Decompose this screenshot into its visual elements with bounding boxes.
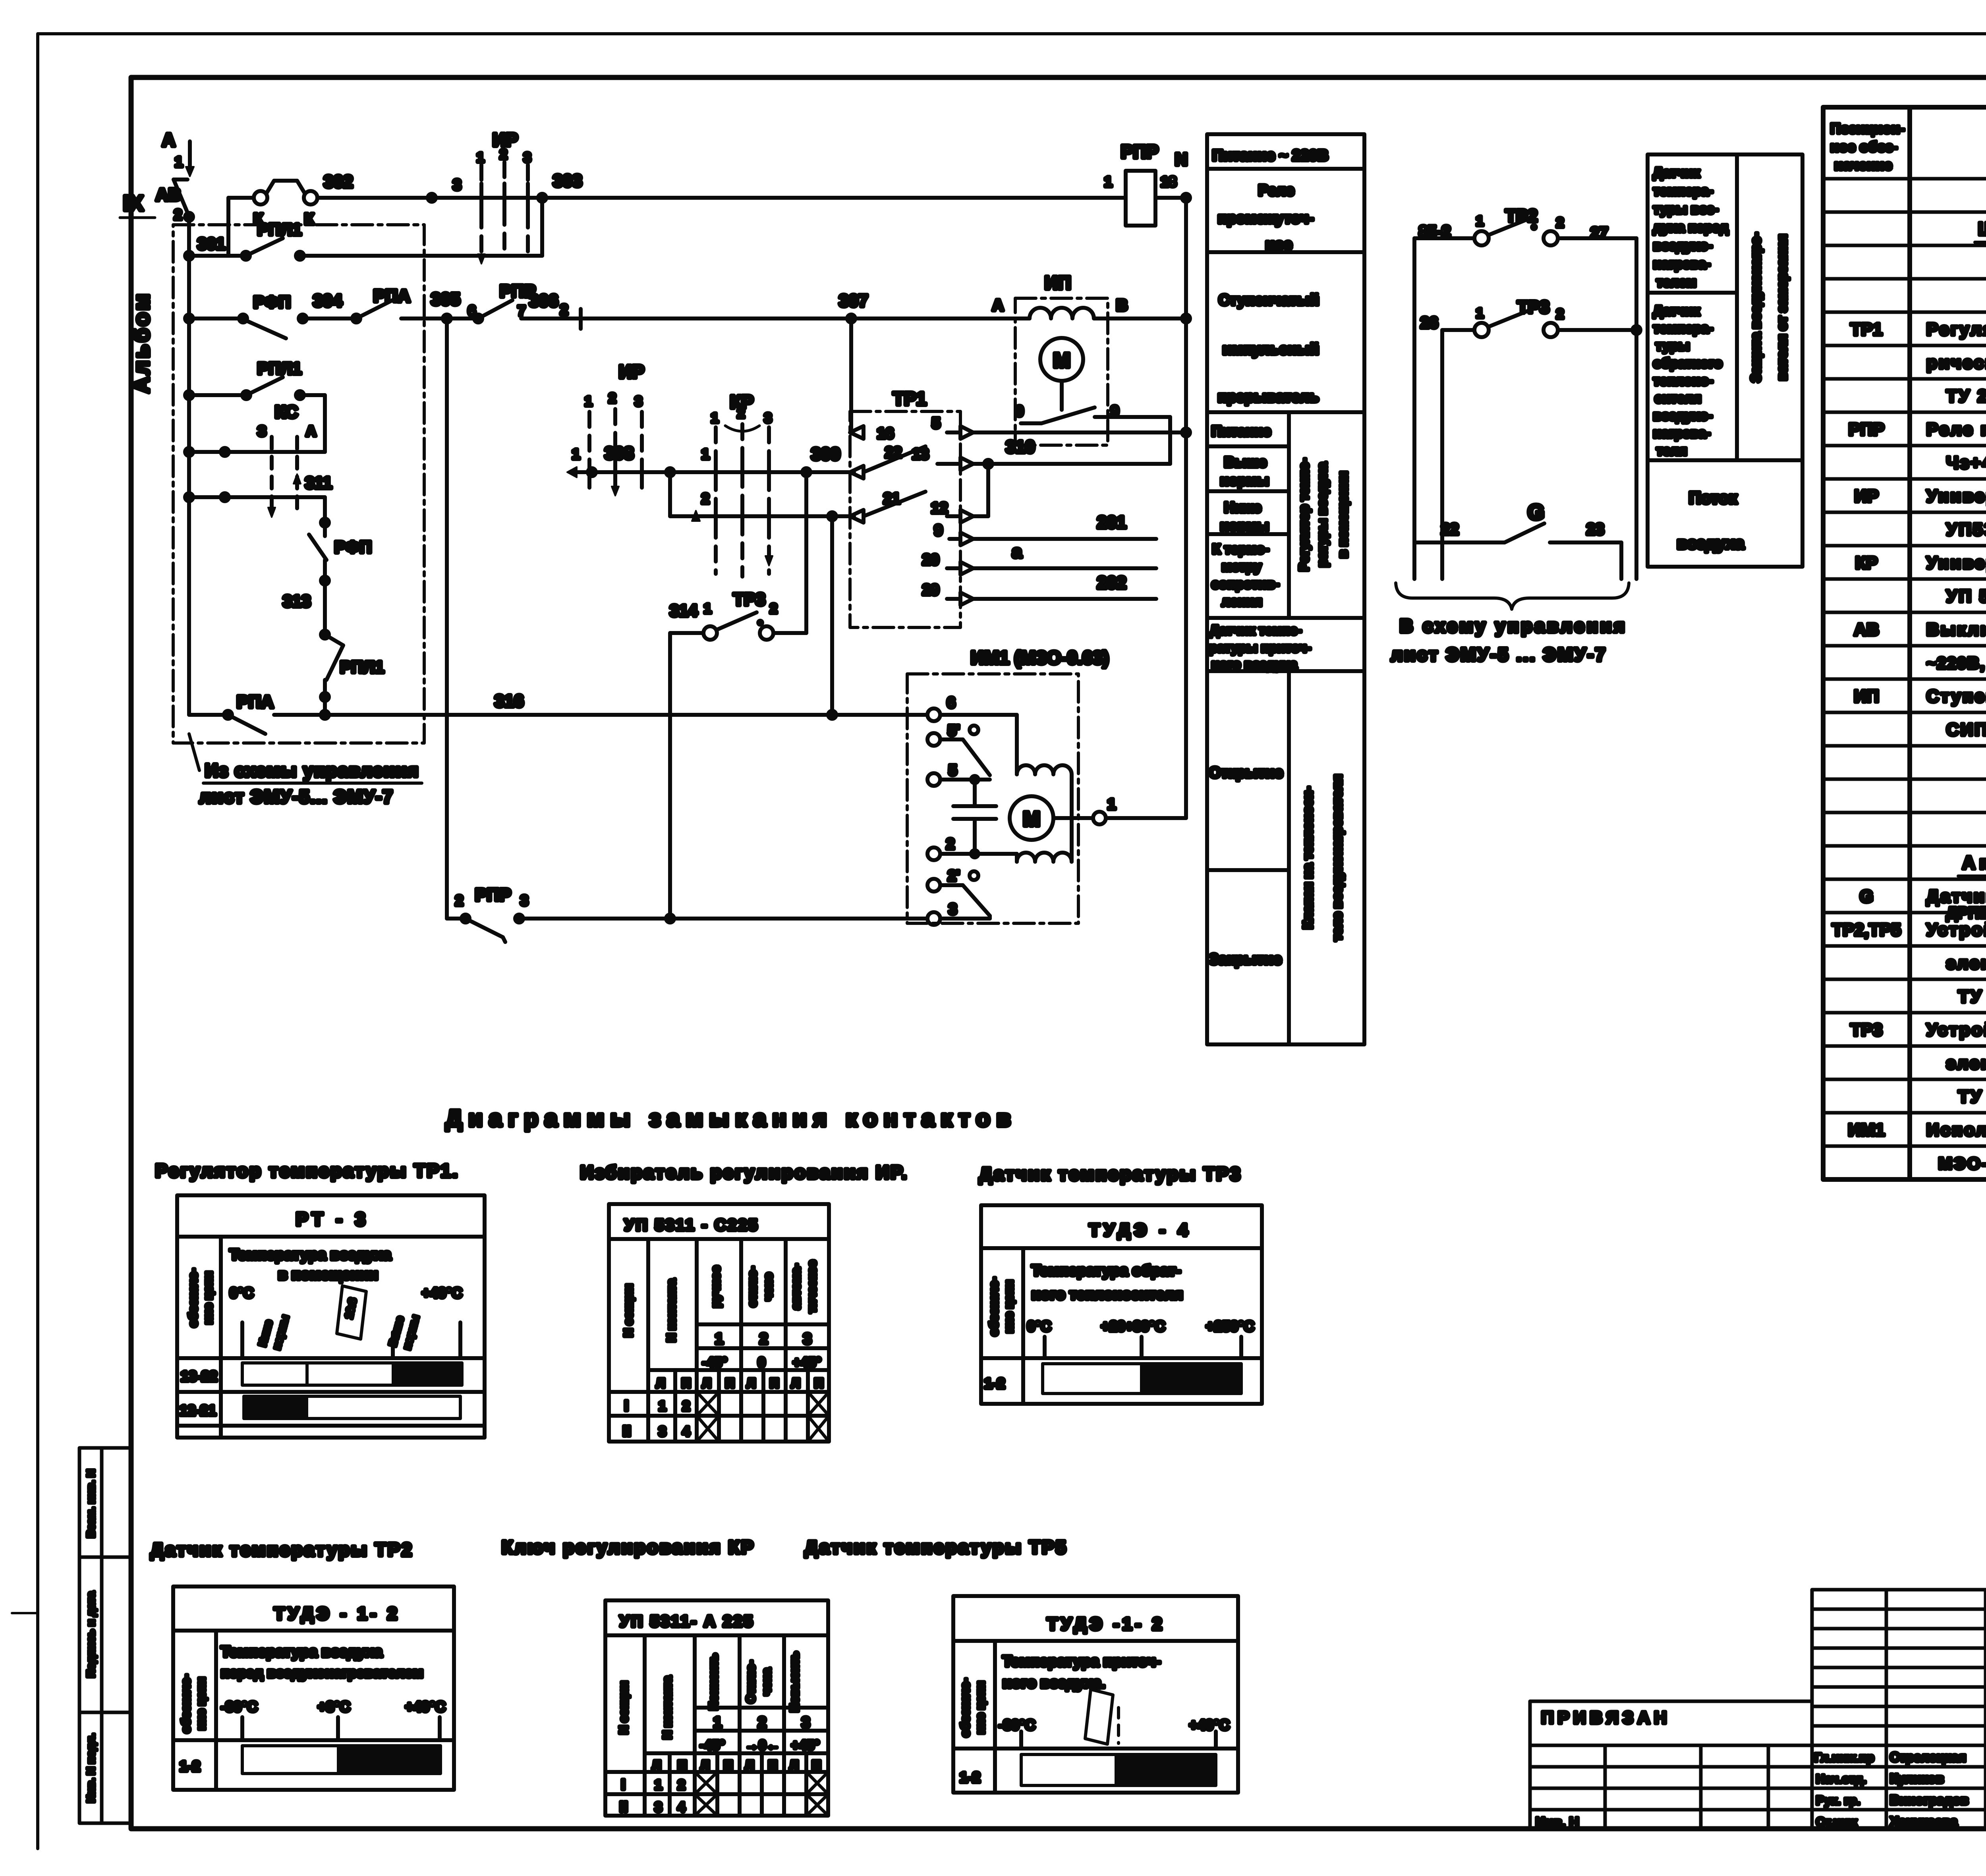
svg-text:Нач.отд.: Нач.отд. [1816,1772,1866,1786]
album label [120,191,155,393]
svg-text:IX: IX [123,191,143,215]
svg-text:~220В, Jн-0,63А, Jотс-1.3Jн Т: ~220В, Jн-0,63А, Jотс-1.3Jн ТУ16-522.110… [1926,654,1986,672]
svg-text:А: А [306,423,316,439]
svg-text:201: 201 [1097,513,1126,532]
svg-text:ТУДЭ - 1- 2: ТУДЭ - 1- 2 [274,1604,400,1623]
svg-text:П: П [725,1376,734,1390]
svg-text:автома-: автома- [790,1264,803,1309]
svg-text:Температура обрат-: Температура обрат- [1032,1262,1181,1279]
svg-text:ТР2,ТР5: ТР2,ТР5 [1832,920,1901,940]
contact RPL1 (second) [185,359,325,452]
contact RPL1 (third, on 313 branch) [321,635,384,715]
note: to control circuit [1391,616,1627,665]
switch AB (automatic breaker) incoming phase A [156,129,194,223]
svg-text:Датчик: Датчик [1653,165,1700,180]
svg-text:-45°: -45° [702,1355,727,1370]
svg-text:обозначе-: обозначе- [959,1678,972,1737]
svg-text:темпера-: темпера- [1653,183,1713,199]
svg-text:1: 1 [572,446,580,462]
svg-text:сителя: сителя [1655,391,1701,406]
svg-text:в помещении: в помещении [1335,471,1350,558]
IM1 terminal 6 [927,695,1017,774]
svg-text:РПЛ1: РПЛ1 [257,359,301,378]
svg-text:перед воздухонагревателем: перед воздухонагревателем [221,1664,423,1681]
air flow relay contact G [1414,500,1621,579]
IM1 terminal 1 to N bus [1093,796,1186,824]
svg-text:I: I [621,1776,625,1793]
svg-text:РПЛ1: РПЛ1 [340,658,384,676]
svg-text:УП 5311- А 225: УП 5311- А 225 [620,1613,754,1630]
svg-text:1: 1 [704,601,711,616]
svg-text:РФП: РФП [253,293,291,311]
svg-text:Открытие: Открытие [1209,764,1283,781]
svg-text:4: 4 [682,1424,690,1439]
svg-text:АВ: АВ [1854,620,1879,639]
wire 302 [317,172,436,202]
svg-text:307: 307 [839,291,868,311]
jumper K-K on wire 302 [228,181,317,256]
svg-text:в помещении: в помещении [278,1266,378,1283]
svg-text:3: 3 [803,1331,811,1347]
svg-text:Повысить: Повысить [788,1652,801,1712]
svg-text:ТР1: ТР1 [1851,320,1883,339]
svg-text:электрическое ТУДЭ-4: электрическое ТУДЭ-4 [1946,1054,1986,1073]
svg-text:ИР: ИР [619,361,644,382]
diagram TUDE-4 (sensor TP3) [981,1205,1262,1404]
IM1 motor M [1010,796,1093,840]
svg-text:1: 1 [655,1778,662,1793]
TP1 output 20 (wire a) [922,542,1156,575]
svg-text:+45°: +45° [793,1355,821,1370]
svg-text:лист ЭМУ-5... ЭМУ-7: лист ЭМУ-5... ЭМУ-7 [199,786,394,807]
wire 308 rail [567,444,854,477]
svg-text:КР: КР [1855,553,1878,573]
selector switch IR (upper group) [453,129,531,264]
svg-text:Куликов: Куликов [1890,1771,1944,1786]
svg-text:В схему управления: В схему управления [1400,616,1627,636]
svg-text:лист ЭМУ-5 ... ЭМУ-7: лист ЭМУ-5 ... ЭМУ-7 [1391,644,1607,665]
svg-text:22: 22 [1441,521,1459,538]
svg-text:П: П [770,1376,779,1390]
svg-text:23: 23 [1586,521,1604,538]
svg-text:0: 0 [758,1355,765,1370]
svg-text:2: 2 [682,1399,690,1414]
svg-text:Защита воздухонагре-: Защита воздухонагре- [1748,232,1764,382]
svg-text:начение: начение [1834,157,1892,173]
svg-text:Ключ регулирования КР: Ключ регулирования КР [502,1537,755,1558]
svg-text:2: 2 [770,601,777,616]
TP1 output 5 [932,415,1190,439]
svg-text:ТУ 25-02. 1074-75: ТУ 25-02. 1074-75 [1958,987,1986,1006]
svg-text:1: 1 [713,1714,722,1731]
temperature regulator TP1 (box) [850,388,960,627]
svg-text:3: 3 [635,394,642,409]
svg-text:ние цепи: ние цепи [1003,1280,1016,1333]
svg-text:1: 1 [715,1331,723,1347]
svg-text:воздуха: воздуха [1677,534,1745,552]
svg-text:воздухо-: воздухо- [1653,408,1712,423]
svg-text:ДРПВ-2: ДРПВ-2 [1946,904,1986,922]
svg-text:Взам. инв. N: Взам. инв. N [85,1469,97,1538]
svg-text:ИМ1 (МЗО-0.63): ИМ1 (МЗО-0.63) [971,647,1109,668]
svg-text:+20÷30°С: +20÷30°С [1101,1318,1165,1334]
svg-text:Датчик температуры ТР3: Датчик температуры ТР3 [979,1164,1242,1184]
wire 307 with drop to TP1 [839,291,868,428]
svg-text:Поток: Поток [1689,488,1737,507]
svg-text:РТ - 3: РТ - 3 [296,1209,369,1229]
svg-text:1: 1 [711,411,719,426]
svg-text:3: 3 [764,411,772,426]
attached stamp block (PRIVYAZAN) [1530,1701,1812,1830]
svg-text:13-22: 13-22 [181,1368,217,1384]
svg-text:I: I [624,1397,628,1414]
svg-text:Понизить: Понизить [707,1654,720,1710]
svg-text:ления: ления [1222,594,1262,609]
svg-text:5: 5 [949,762,957,779]
svg-text:импульсный: импульсный [1223,341,1319,358]
diagram PT-3 (regulator TP1) [177,1195,485,1438]
svg-text:ние цепи: ние цепи [974,1681,987,1734]
N bus vertical [1155,194,1190,818]
svg-text:Аппаратура по месту: Аппаратура по месту [1962,852,1986,873]
svg-text:2: 2 [609,391,616,406]
svg-text:П: П [682,1376,691,1390]
svg-text:чено: чено [762,1273,775,1301]
svg-text:ТУДЭ - 4: ТУДЭ - 4 [1089,1220,1192,1240]
svg-text:II: II [623,1423,631,1439]
svg-text:303: 303 [553,171,582,191]
svg-text:310: 310 [1006,437,1035,457]
svg-text:2: 2 [174,207,182,223]
thermo sensor TP3 contact (wire 314) [670,590,806,919]
svg-text:G: G [1860,887,1873,906]
svg-text:Щит регулирования ЭЩРВ: Щит регулирования ЭЩРВ [1978,218,1986,239]
svg-text:302: 302 [324,172,353,191]
svg-text:305: 305 [431,290,460,309]
wire 304 rail [185,315,244,322]
cabinet boundary (dash-dot) [173,225,424,743]
svg-text:1: 1 [1476,306,1484,321]
TP1 output 12 bridged to 310 [931,464,988,523]
svg-text:Температура воздуха: Температура воздуха [230,1247,391,1263]
svg-text:нормы: нормы [1220,517,1269,534]
contact RPA [352,286,478,322]
svg-text:Универсальный переключатель: Универсальный переключатель [1926,486,1986,506]
svg-text:ние цепи: ние цепи [195,1677,208,1730]
svg-text:304: 304 [313,291,342,311]
svg-text:Выше: Выше [1224,454,1267,470]
svg-text:Подпись и дата: Подпись и дата [85,1591,97,1677]
svg-text:Реле промежуточное ПЭ-21УЗ ~: Реле промежуточное ПЭ-21УЗ ~ 220В [1926,420,1986,439]
svg-text:29: 29 [922,582,939,598]
signature grid [1812,1590,1986,1829]
svg-text:РПР: РПР [1121,141,1158,162]
svg-text:N секции: N секции [617,1681,630,1734]
svg-text:М: М [1023,808,1040,831]
svg-text:ТР3: ТР3 [1851,1020,1883,1040]
svg-text:Датчик температуры ТР2: Датчик температуры ТР2 [151,1539,413,1560]
svg-text:2': 2' [948,868,960,884]
svg-text:ТР3: ТР3 [733,590,765,609]
svg-text:ИП: ИП [1854,687,1879,706]
svg-text:теплоно-: теплоно- [1653,373,1713,388]
svg-text:16: 16 [877,425,894,442]
wire to node of rail 303 [300,194,546,256]
left margin stamp strip [79,1448,131,1823]
svg-text:Ниже: Ниже [1224,499,1261,515]
svg-text:ТР1: ТР1 [893,388,926,409]
svg-text:тическое: тическое [806,1260,819,1313]
contact RFP [239,291,356,338]
svg-text:обратного: обратного [1653,356,1722,371]
svg-text:обозначе-: обозначе- [187,1268,200,1327]
relay coil RPR [1104,141,1188,226]
svg-text:N контакта: N контакта [665,1279,678,1342]
svg-text:9: 9 [934,522,943,539]
svg-text:313: 313 [283,592,311,610]
svg-text:1: 1 [1476,214,1484,229]
contact RFP (vertical branch 313) [283,535,372,639]
svg-text:УП 5311-А225 ТУ16-524. 074-75: УП 5311-А225 ТУ16-524. 074-75 [1946,587,1986,606]
svg-text:Ступенчатый: Ступенчатый [1219,292,1319,309]
svg-text:Клапан на теплоноси-: Клапан на теплоноси- [1300,787,1315,929]
svg-text:Л: Л [791,1376,800,1390]
svg-text:21: 21 [883,490,900,507]
svg-text:N секции: N секции [622,1284,635,1337]
svg-text:РПР: РПР [475,885,511,905]
svg-text:ние цепи: ние цепи [202,1271,215,1324]
vertical 309->IM1 terminal 6 feed [830,516,834,715]
IM1 terminal 3 [927,901,990,925]
svg-text:3: 3 [659,1424,666,1439]
svg-text:Исполнительный механизм: Исполнительный механизм [1926,1120,1986,1140]
svg-text:5': 5' [948,722,960,739]
svg-text:6: 6 [947,695,955,711]
svg-text:нагрева-: нагрева- [1653,257,1710,272]
svg-text:Л: Л [656,1376,665,1390]
svg-text:Из схемы управления: Из схемы управления [205,760,419,781]
TP1 input arrow 21 with blade [850,490,925,523]
selector switch IR (second group) [585,361,644,496]
svg-text:ТУ 25-02. 202114-78: ТУ 25-02. 202114-78 [1946,386,1986,406]
svg-text:П: П [814,1376,823,1390]
svg-text:К: К [304,210,314,228]
svg-text:314: 314 [670,601,698,620]
svg-text:Инв. Н: Инв. Н [1536,1815,1579,1830]
contact RPR (row 304) [474,282,1017,329]
svg-text:А: А [162,129,175,150]
TP1 input arrow 22 with blade [850,444,925,479]
TP1 output 29 (wire 202) [922,573,1156,605]
svg-text:2: 2 [1556,307,1564,322]
svg-text:1-2: 1-2 [180,1758,200,1774]
svg-text:1: 1 [175,154,183,170]
diagram TUDE-1-2 (sensor TP2) [173,1586,454,1790]
svg-text:Датчик темпе-: Датчик темпе- [1210,623,1302,637]
svg-text:нагрева-: нагрева- [1653,426,1710,441]
svg-text:Реле: Реле [1258,182,1294,199]
svg-text:ИР: ИР [1855,486,1879,506]
sensor contact TP2 [1414,206,1636,579]
svg-text:Стрелецкая: Стрелецкая [1890,1750,1966,1764]
svg-text:2: 2 [759,1331,768,1347]
svg-text:Питание ~ 220В: Питание ~ 220В [1212,147,1328,164]
svg-text:3: 3 [453,177,461,193]
svg-text:-45°: -45° [700,1738,725,1753]
svg-text:2: 2 [737,406,745,421]
svg-text:ИМ1: ИМ1 [1848,1120,1885,1140]
svg-text:2: 2 [500,147,507,162]
diagram UP 5311-A225 (key KP) [605,1600,828,1816]
svg-text:Позицион-: Позицион- [1830,120,1905,137]
svg-text:Л: Л [702,1376,711,1390]
svg-text:-30°С: -30°С [221,1698,257,1715]
svg-text:Ханукаева: Ханукаева [1890,1814,1958,1829]
svg-text:1: 1 [701,446,709,462]
svg-text:МЭО-0.63/63-0.25 ТУ1-01. 03: МЭО-0.63/63-0.25 ТУ1-01. 0321-76 [1938,1154,1986,1173]
TP1 output 9 (wire 201) [934,513,1156,545]
TP1 output 13 and wire 310 [912,437,1170,470]
svg-text:309: 309 [811,444,840,464]
svg-text:1: 1 [477,150,484,165]
svg-text:В: В [1116,297,1128,314]
svg-text:→0←: →0← [745,1738,780,1753]
svg-text:3: 3 [949,901,957,918]
svg-text:G: G [1528,500,1544,524]
svg-text:316: 316 [495,691,524,711]
svg-text:туры: туры [1656,338,1690,353]
IM1 terminal 2' limit switch [927,868,990,916]
svg-text:2: 2 [946,836,954,853]
wire 309 branch down [804,472,808,633]
svg-text:З: З [257,423,267,439]
svg-text:0°С: 0°С [1027,1318,1051,1334]
svg-text:Гл.инж.пр: Гл.инж.пр [1814,1751,1874,1764]
svg-text:2: 2 [455,892,463,909]
svg-text:18: 18 [1161,174,1177,190]
diagram TUDE-1-2 (sensor TP5) [953,1596,1238,1793]
svg-text:Устройство терморегулирующее: Устройство терморегулирующее [1926,1020,1986,1040]
svg-text:1: 1 [659,1399,666,1414]
svg-text:12-21: 12-21 [180,1402,216,1419]
svg-text:Регулятор температуры элек: Регулятор температуры элект- [1926,320,1986,339]
sensor contact TP3 [1420,297,1640,579]
svg-text:+40°С: +40°С [1189,1717,1229,1733]
svg-text:Диаграммы замыкания контак: Диаграммы замыкания контактов [446,1106,1017,1131]
svg-text:Питание: Питание [1211,423,1271,439]
svg-text:РПА: РПА [237,692,274,712]
capacitor [953,780,996,854]
svg-text:обозначе-: обозначе- [180,1674,193,1733]
svg-text:2: 2 [678,1778,685,1793]
left vertical bus from AB [187,217,191,715]
svg-text:РПЛ1: РПЛ1 [257,220,301,239]
svg-text:РПА: РПА [373,286,410,306]
svg-text:обозначе-: обозначе- [987,1277,1001,1336]
svg-text:вателя от замерзания: вателя от замерзания [1775,234,1790,380]
svg-text:0°С: 0°С [230,1285,253,1301]
svg-text:2: 2 [1556,215,1564,230]
IM1 terminal 2 [927,836,1017,862]
svg-text:5: 5 [932,415,940,432]
svg-text:13: 13 [912,446,929,463]
svg-text:308: 308 [605,444,634,463]
svg-text:ИП: ИП [1045,272,1071,293]
svg-text:темпера-: темпера- [1653,321,1713,336]
svg-text:а: а [1012,542,1022,562]
svg-text:ТУ 25-02. 1074-75: ТУ 25-02. 1074-75 [1958,1087,1986,1106]
svg-text:1-2: 1-2 [960,1769,980,1785]
svg-text:Виноградов: Виноградов [1890,1793,1969,1807]
svg-text:РФП: РФП [334,538,372,556]
svg-text:А: А [992,297,1004,314]
svg-text:Рук. гр.: Рук. гр. [1816,1793,1860,1807]
svg-text:Инв. N подл.: Инв. N подл. [85,1733,97,1803]
svg-text:0: 0 [1015,403,1024,420]
svg-text:К: К [253,210,263,228]
svg-text:Ступенчатый импульсный преры: Ступенчатый импульсный прерыватель [1926,687,1986,706]
svg-text:N: N [1175,150,1188,169]
svg-text:ное обоз-: ное обоз- [1830,139,1897,155]
svg-text:3: 3 [802,1714,810,1731]
svg-text:метру: метру [1222,559,1262,574]
svg-text:1: 1 [1107,796,1116,813]
svg-text:4: 4 [678,1800,685,1815]
svg-text:УП 5311 - С225: УП 5311 - С225 [624,1216,759,1234]
svg-text:+45°: +45° [791,1738,819,1753]
svg-text:Датчик: Датчик [1653,303,1700,318]
svg-text:II: II [620,1799,628,1815]
IM1 terminal 5' limit switch [927,722,990,775]
svg-text:22: 22 [885,444,902,461]
svg-text:рический трехпозиционный Р: рический трехпозиционный РТ-3 [1926,353,1986,372]
svg-text:Закрытие: Закрытие [1209,951,1282,968]
control key KP [711,392,773,577]
svg-text:Универсальный переключатель: Универсальный переключатель [1926,553,1986,573]
svg-text:Ст.инж: Ст.инж [1816,1815,1857,1829]
svg-text:301: 301 [197,234,225,253]
svg-text:Температура воздуха: Температура воздуха [221,1644,383,1660]
svg-text:теля: теля [1656,443,1687,458]
svg-text:Альбом: Альбом [129,291,154,393]
svg-text:телем: телем [1656,275,1696,290]
contact RPL1 (upper) [242,220,304,260]
svg-text:311: 311 [305,473,332,492]
svg-text:Чз+4р ТУ16-523. 457-74: Чз+4р ТУ16-523. 457-74 [1946,453,1986,473]
svg-text:7: 7 [518,303,525,319]
svg-text:20: 20 [922,552,939,568]
svg-text:ное: ное [1265,236,1292,253]
svg-text:ратуры приточ-: ратуры приточ- [1209,640,1311,655]
svg-text:АВ: АВ [156,185,181,205]
svg-text:ручное: ручное [709,1266,723,1307]
sensor description box [1648,154,1802,567]
svg-text:+40°С: +40°С [405,1698,445,1715]
svg-text:ТУДЭ -1- 2: ТУДЭ -1- 2 [1047,1614,1165,1634]
svg-text:промежуточ-: промежуточ- [1218,210,1314,227]
contact RPA and wire 316 [189,691,927,734]
svg-text:Регулятор темпе-: Регулятор темпе- [1296,458,1311,571]
svg-text:отклю-: отклю- [746,1266,759,1307]
svg-text:теле воздухонагревателя: теле воздухонагревателя [1330,774,1345,941]
svg-text:+40°С: +40°С [422,1285,462,1301]
svg-text:Выключатель автоматический АБ: Выключатель автоматический АБЗ-МУЗ, [1926,620,1986,639]
svg-text:сопротив-: сопротив- [1211,577,1279,592]
svg-text:3: 3 [520,892,528,909]
rail 2 (lower key row) [670,472,854,521]
IM1 terminal 5 [927,762,990,786]
svg-text:Датчик температуры ТР5: Датчик температуры ТР5 [805,1537,1067,1558]
